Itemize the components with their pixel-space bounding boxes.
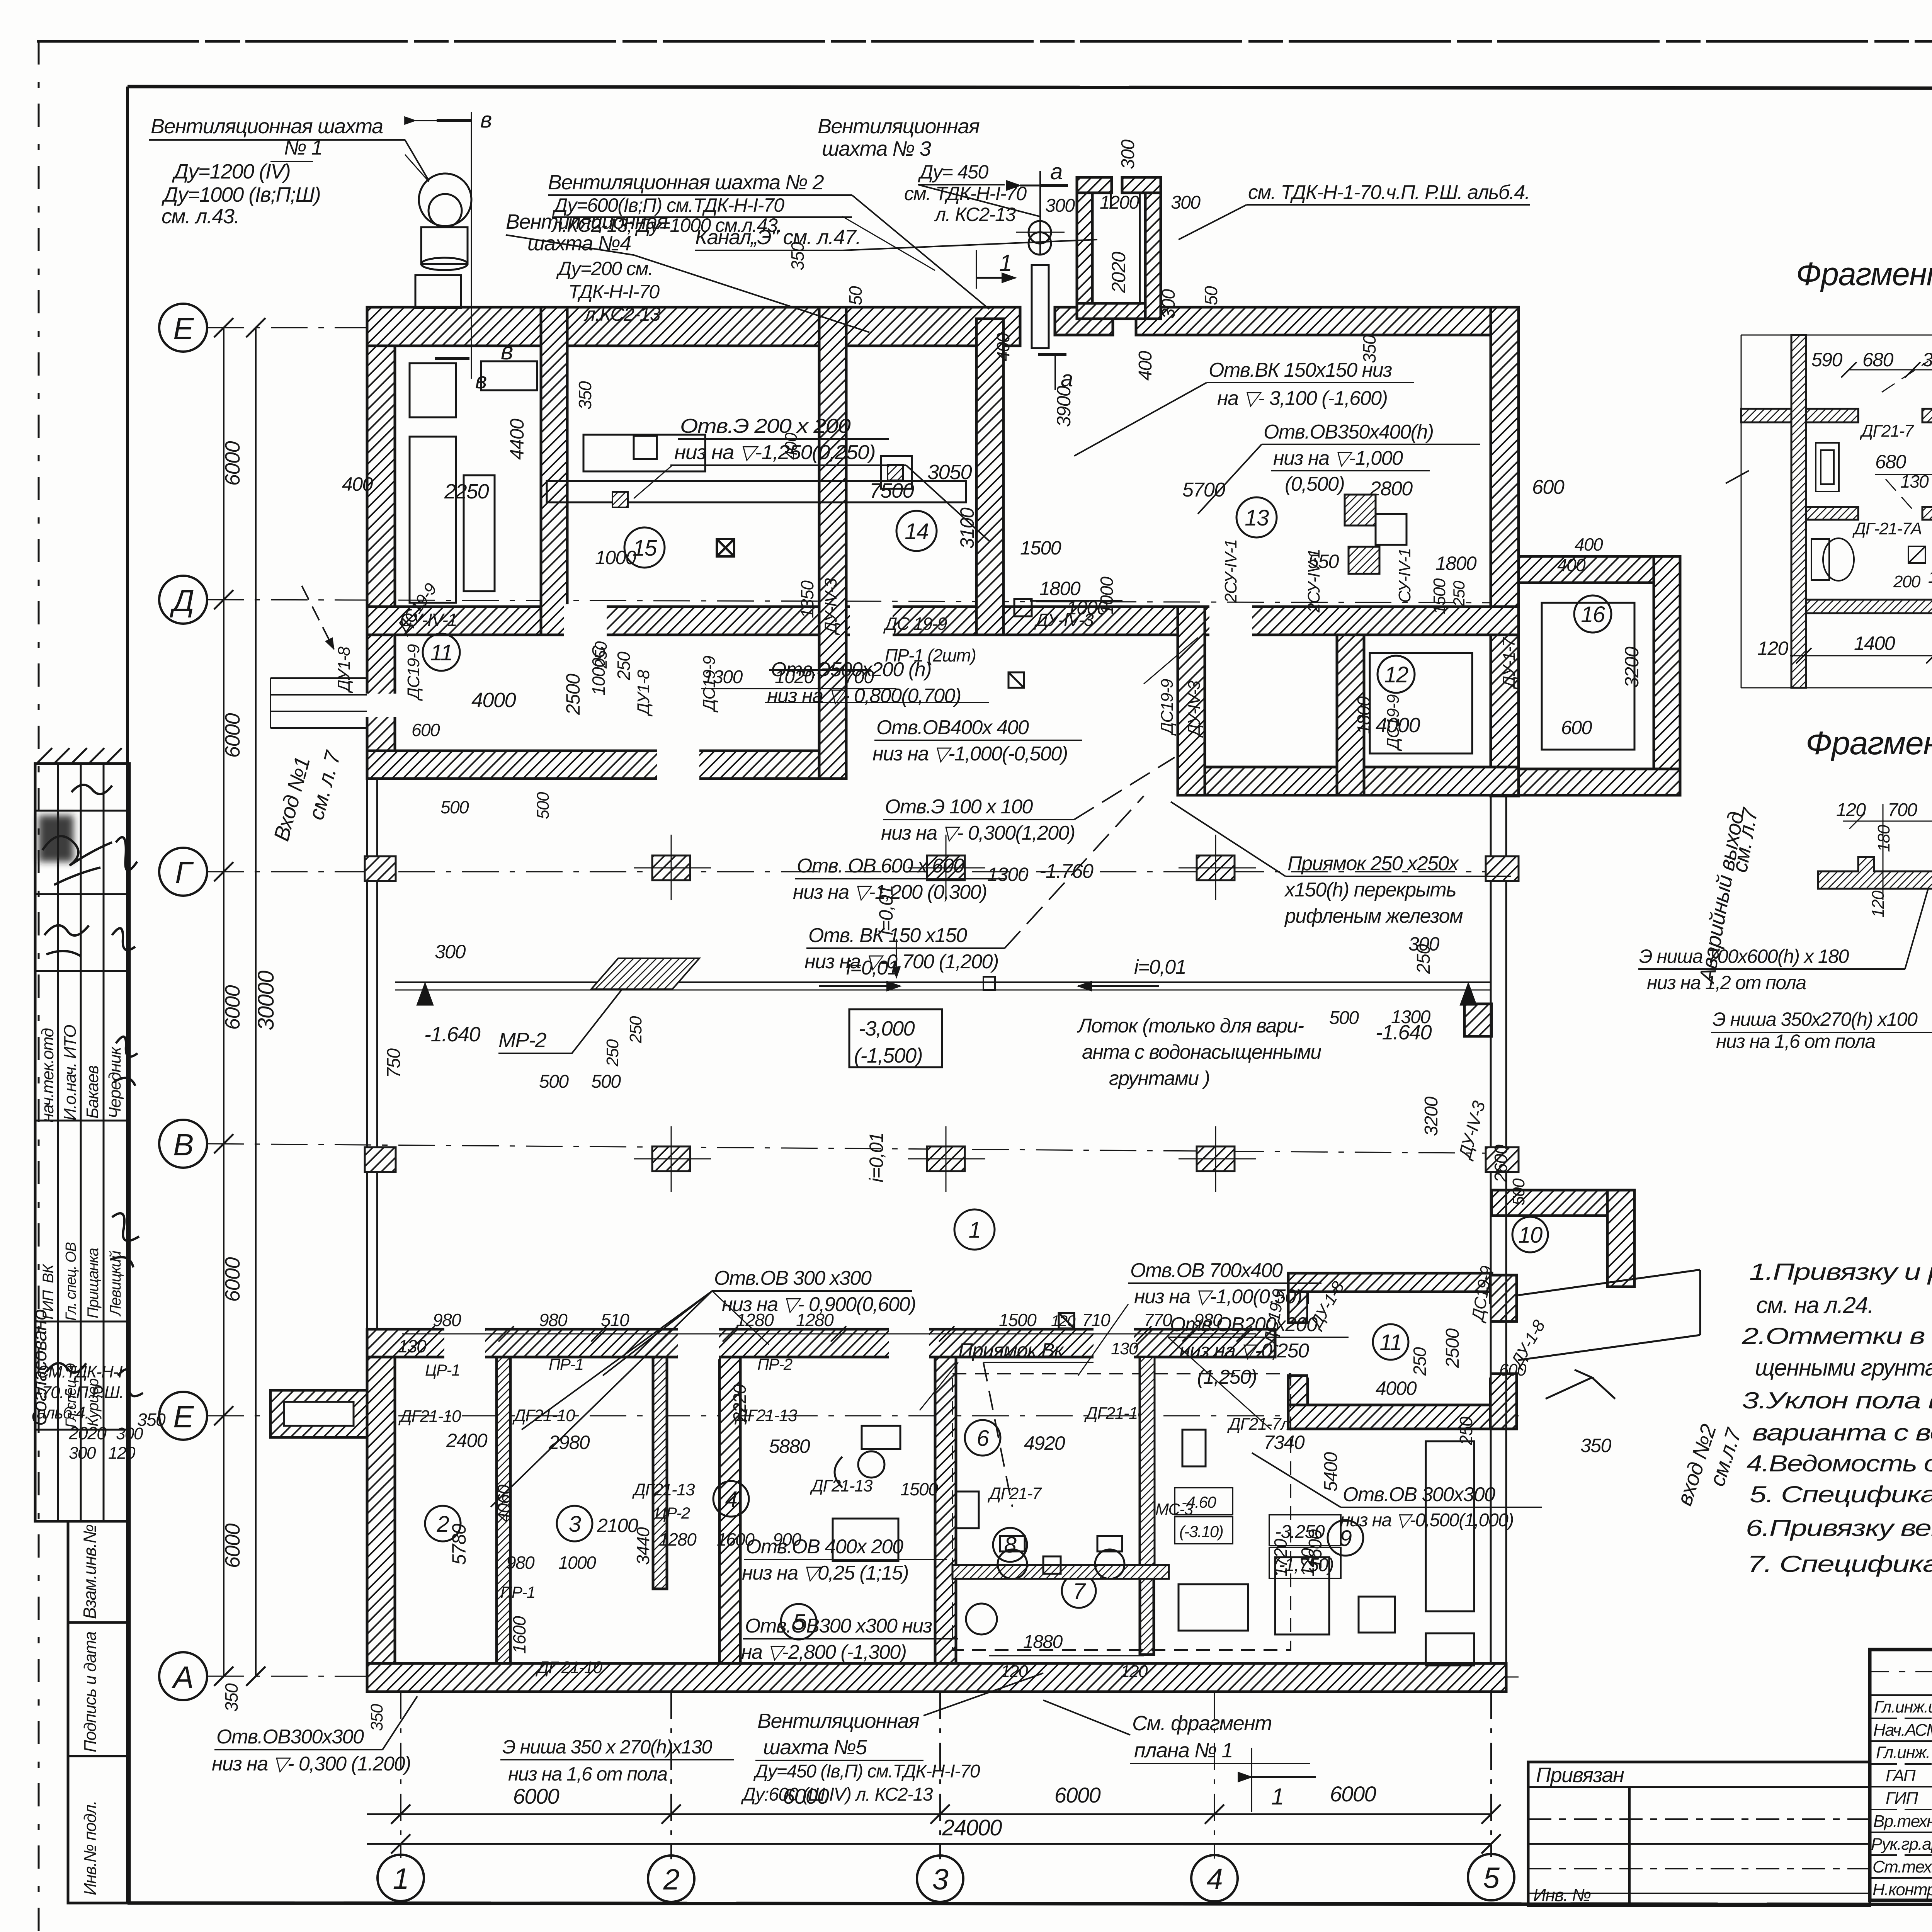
svg-text:3: 3 <box>569 1512 581 1537</box>
svg-text:х150(h) перекрыть: х150(h) перекрыть <box>1284 879 1456 901</box>
svg-text:980: 980 <box>539 1310 568 1330</box>
svg-text:рифленым железом: рифленым железом <box>1284 905 1463 927</box>
svg-text:i=0,01: i=0,01 <box>866 1133 887 1182</box>
svg-text:нач.тек.отд: нач.тек.отд <box>38 1029 57 1122</box>
svg-text:Нач.АСМ: Нач.АСМ <box>1873 1721 1932 1740</box>
svg-text:1: 1 <box>393 1862 409 1895</box>
svg-text:1400: 1400 <box>1854 633 1895 654</box>
svg-text:Отв.ОВ 400х 200: Отв.ОВ 400х 200 <box>746 1536 903 1558</box>
svg-text:ГИП: ГИП <box>1886 1789 1918 1808</box>
svg-text:2500: 2500 <box>562 673 584 715</box>
svg-text:16: 16 <box>1581 602 1605 627</box>
svg-text:ПР-1 (2шт): ПР-1 (2шт) <box>885 645 976 665</box>
svg-text:2220: 2220 <box>730 1384 750 1422</box>
svg-text:120: 120 <box>1757 638 1789 659</box>
svg-text:2600: 2600 <box>1491 1145 1511 1183</box>
svg-text:1280: 1280 <box>796 1310 834 1330</box>
svg-text:4920: 4920 <box>1024 1432 1065 1454</box>
svg-text:Гл. спец. ОВ: Гл. спец. ОВ <box>63 1242 79 1321</box>
svg-text:600: 600 <box>412 720 440 740</box>
svg-text:ДУ-IV-3: ДУ-IV-3 <box>821 578 840 636</box>
svg-text:600: 600 <box>1561 717 1592 738</box>
svg-text:Отв.ОВ 700х400: Отв.ОВ 700х400 <box>1130 1259 1283 1282</box>
svg-text:i=0,01: i=0,01 <box>875 885 897 935</box>
svg-text:300: 300 <box>1045 196 1075 216</box>
svg-text:ЦР-2: ЦР-2 <box>655 1504 690 1522</box>
svg-text:1300: 1300 <box>703 667 743 687</box>
svg-text:см. л.43.: см. л.43. <box>162 205 239 228</box>
svg-text:120: 120 <box>108 1444 136 1463</box>
svg-text:ДУ-1-7: ДУ-1-7 <box>1500 637 1519 690</box>
svg-text:низ на 1,6 от пола: низ на 1,6 от пола <box>1716 1031 1875 1052</box>
svg-text:Ду:600 (Ш,IV) л. КС2-13: Ду:600 (Ш,IV) л. КС2-13 <box>741 1784 933 1805</box>
svg-text:2100: 2100 <box>597 1515 638 1536</box>
svg-text:Инв.№ подл.: Инв.№ подл. <box>81 1801 100 1895</box>
svg-text:4400: 4400 <box>506 418 528 460</box>
svg-text:низ на ▽-1,000(-0,500): низ на ▽-1,000(-0,500) <box>872 743 1068 765</box>
svg-text:350: 350 <box>787 242 808 270</box>
svg-text:Ду=1000 (Iв;П;Ш): Ду=1000 (Iв;П;Ш) <box>162 183 320 206</box>
svg-text:14: 14 <box>905 519 929 544</box>
svg-text:350: 350 <box>137 1410 166 1430</box>
svg-text:ДГ21-13: ДГ21-13 <box>632 1480 695 1499</box>
svg-text:шахта №5: шахта №5 <box>763 1736 867 1759</box>
svg-text:6000: 6000 <box>221 441 244 486</box>
svg-text:4000: 4000 <box>1376 1378 1417 1399</box>
svg-text:Взам.инв.№: Взам.инв.№ <box>80 1524 100 1619</box>
svg-text:300: 300 <box>69 1444 96 1463</box>
svg-text:5400: 5400 <box>1321 1452 1341 1492</box>
svg-text:Лоток (только для вари-: Лоток (только для вари- <box>1077 1015 1304 1037</box>
svg-text:2500: 2500 <box>1442 1328 1463 1368</box>
svg-text:1: 1 <box>969 1218 981 1243</box>
svg-text:2800: 2800 <box>1369 478 1413 500</box>
svg-text:Фрагмент плана №1: Фрагмент плана №1 <box>1796 256 1932 292</box>
svg-text:250: 250 <box>614 651 634 680</box>
svg-text:ГАП: ГАП <box>1886 1766 1916 1785</box>
svg-text:350: 350 <box>367 1704 386 1731</box>
svg-text:4060: 4060 <box>494 1485 514 1522</box>
svg-text:Вентиляционная шахта: Вентиляционная шахта <box>151 115 383 138</box>
svg-text:50: 50 <box>1201 286 1221 305</box>
svg-text:i=0,01: i=0,01 <box>1134 956 1186 978</box>
svg-text:ДГ21-10: ДГ21-10 <box>512 1406 575 1425</box>
svg-text:350: 350 <box>221 1683 241 1712</box>
svg-text:А: А <box>172 1660 193 1694</box>
svg-text:Отв.ОВ300х300: Отв.ОВ300х300 <box>216 1726 364 1748</box>
svg-text:250: 250 <box>626 1016 645 1044</box>
svg-text:Вентиляционная шахта № 2: Вентиляционная шахта № 2 <box>548 171 824 194</box>
svg-text:4: 4 <box>725 1487 737 1512</box>
svg-text:380: 380 <box>1922 349 1932 371</box>
svg-text:1000: 1000 <box>558 1553 596 1573</box>
svg-text:Вход №1: Вход №1 <box>269 755 315 844</box>
svg-text:ДГ21-10: ДГ21-10 <box>1084 1404 1147 1423</box>
svg-text:Отв.ОВ 300х300: Отв.ОВ 300х300 <box>1343 1483 1495 1506</box>
svg-text:Привязан: Привязан <box>1536 1764 1624 1787</box>
svg-text:ДС19-9: ДС19-9 <box>404 644 423 701</box>
svg-text:900: 900 <box>773 1529 801 1549</box>
svg-text:низ на ▽- 0,300(1,200): низ на ▽- 0,300(1,200) <box>881 822 1075 844</box>
svg-text:Отв. ОВ 600 х 600: Отв. ОВ 600 х 600 <box>797 855 964 877</box>
svg-text:Ду=1200 (IV): Ду=1200 (IV) <box>172 160 290 183</box>
svg-text:1350: 1350 <box>797 580 817 618</box>
svg-text:1500: 1500 <box>1020 537 1061 559</box>
svg-text:Отв.ОВ300 х300 низ: Отв.ОВ300 х300 низ <box>745 1615 932 1637</box>
svg-text:Приямок Вк: Приямок Вк <box>958 1339 1065 1362</box>
svg-text:500: 500 <box>591 1071 621 1092</box>
svg-text:300: 300 <box>1158 289 1179 319</box>
svg-text:1600: 1600 <box>717 1529 755 1549</box>
svg-text:500: 500 <box>539 1071 569 1092</box>
svg-text:Вр.техн.: Вр.техн. <box>1873 1812 1932 1831</box>
svg-text:И.о.нач. ИТО: И.о.нач. ИТО <box>61 1025 80 1121</box>
svg-text:50: 50 <box>845 286 866 305</box>
svg-text:Инв. №: Инв. № <box>1533 1885 1591 1905</box>
svg-text:1: 1 <box>999 250 1012 276</box>
svg-text:680: 680 <box>1862 349 1894 371</box>
svg-text:130: 130 <box>1928 568 1932 587</box>
svg-text:120: 120 <box>1051 1313 1075 1330</box>
svg-text:СМ.ТДК-Н-I: СМ.ТДК-Н-I <box>37 1362 123 1381</box>
svg-text:6000: 6000 <box>1330 1782 1376 1806</box>
svg-text:1300: 1300 <box>987 864 1029 885</box>
svg-text:6000: 6000 <box>221 713 244 758</box>
svg-text:6000: 6000 <box>1054 1783 1101 1807</box>
svg-text:(1,250): (1,250) <box>1197 1366 1257 1388</box>
svg-text:Отв.ВК 150х150 низ: Отв.ВК 150х150 низ <box>1209 359 1392 381</box>
svg-text:Е: Е <box>173 311 194 346</box>
svg-text:980: 980 <box>506 1553 535 1573</box>
svg-text:Ст.техн: Ст.техн <box>1872 1857 1932 1876</box>
svg-text:Вентиляционная: Вентиляционная <box>757 1709 919 1733</box>
svg-text:7340: 7340 <box>1264 1432 1305 1453</box>
svg-text:350: 350 <box>575 381 595 410</box>
svg-text:1800: 1800 <box>1435 553 1477 574</box>
svg-text:1200: 1200 <box>1100 192 1139 213</box>
svg-text:низ на ▽0,25 (1;15): низ на ▽0,25 (1;15) <box>742 1562 908 1584</box>
svg-text:1500: 1500 <box>900 1479 938 1499</box>
svg-text:Левицкий: Левицкий <box>107 1251 124 1317</box>
svg-text:Отв.Э 200 х 200: Отв.Э 200 х 200 <box>680 415 851 437</box>
svg-text:ДУ-IV-3: ДУ-IV-3 <box>1454 1099 1489 1162</box>
svg-text:1600: 1600 <box>509 1616 529 1654</box>
svg-text:2020: 2020 <box>68 1423 107 1443</box>
svg-text:см. ТДК-Н-1-70.ч.П. Р.Ш. альб.: см. ТДК-Н-1-70.ч.П. Р.Ш. альб.4. <box>1248 181 1530 204</box>
svg-text:180: 180 <box>1874 825 1893 852</box>
svg-text:низ на ▽-0,700 (1,200): низ на ▽-0,700 (1,200) <box>804 951 998 973</box>
svg-text:5: 5 <box>1483 1862 1500 1895</box>
svg-text:6: 6 <box>977 1426 990 1451</box>
svg-text:Прищанка: Прищанка <box>85 1248 102 1318</box>
svg-text:а: а <box>1050 159 1062 184</box>
svg-text:2: 2 <box>437 1512 449 1537</box>
svg-text:4: 4 <box>1207 1863 1223 1896</box>
svg-text:ДС19-9: ДС19-9 <box>1158 679 1177 736</box>
svg-text:700: 700 <box>1888 800 1917 820</box>
svg-text:7. Спецификацию перемычек с: 7. Спецификацию перемычек см. л. 44. <box>1747 1551 1932 1577</box>
svg-text:анта с водонасыщенными: анта с водонасыщенными <box>1082 1041 1321 1063</box>
svg-text:2СУ-IV-1: 2СУ-IV-1 <box>1221 539 1240 603</box>
svg-text:Э ниша 350 х 270(h)х130: Э ниша 350 х 270(h)х130 <box>502 1736 712 1758</box>
svg-text:В: В <box>173 1128 193 1162</box>
svg-text:-3.250: -3.250 <box>1275 1522 1325 1542</box>
svg-text:500: 500 <box>1509 1178 1528 1206</box>
svg-text:Отв.ОВ400х 400: Отв.ОВ400х 400 <box>876 716 1029 739</box>
svg-text:Отв.ОВ 300 х300: Отв.ОВ 300 х300 <box>714 1267 872 1289</box>
svg-text:710: 710 <box>1082 1310 1111 1330</box>
svg-text:Рук.гр.арх: Рук.гр.арх <box>1871 1835 1932 1854</box>
svg-text:6000: 6000 <box>221 1257 244 1302</box>
svg-text:грунтами ): грунтами ) <box>1109 1067 1209 1090</box>
svg-text:24000: 24000 <box>942 1815 1002 1840</box>
svg-text:3050: 3050 <box>927 461 972 484</box>
svg-text:низ на 1,6 от пола: низ на 1,6 от пола <box>508 1763 667 1785</box>
svg-text:шахта № 3: шахта № 3 <box>822 137 931 160</box>
svg-text:Э ниша 700х600(h) х 180: Э ниша 700х600(h) х 180 <box>1639 946 1849 967</box>
svg-text:1280: 1280 <box>659 1529 697 1549</box>
svg-text:750: 750 <box>384 1048 404 1078</box>
svg-text:Д: Д <box>170 583 194 618</box>
svg-text:120: 120 <box>1001 1662 1028 1681</box>
svg-text:ДУ-IV-3: ДУ-IV-3 <box>1185 680 1204 738</box>
svg-text:ДГ-21-7А: ДГ-21-7А <box>1852 519 1922 538</box>
svg-text:-4.60: -4.60 <box>1182 1493 1216 1511</box>
svg-text:7500: 7500 <box>869 479 914 502</box>
svg-text:350: 350 <box>1580 1435 1612 1456</box>
svg-text:1280: 1280 <box>736 1310 774 1330</box>
svg-text:1800: 1800 <box>1039 578 1081 599</box>
svg-text:2СУ-IV-1: 2СУ-IV-1 <box>1304 549 1323 613</box>
svg-text:3900: 3900 <box>1053 386 1075 427</box>
svg-text:Канал„Э" см. л.47.: Канал„Э" см. л.47. <box>695 226 861 249</box>
svg-text:Гл.инж.ин: Гл.инж.ин <box>1874 1697 1932 1716</box>
svg-text:2.Отметки в скобках приведены: 2.Отметки в скобках приведены для вариан… <box>1742 1323 1932 1349</box>
svg-text:1000: 1000 <box>595 547 636 568</box>
svg-text:Отв.Э 100 х 100: Отв.Э 100 х 100 <box>885 796 1033 818</box>
svg-text:120: 120 <box>1121 1662 1148 1681</box>
svg-text:Ду=450 (Iв,П) см.ТДК-Н-I-70: Ду=450 (Iв,П) см.ТДК-Н-I-70 <box>753 1761 980 1782</box>
svg-text:250: 250 <box>1413 944 1434 974</box>
svg-text:на ▽- 3,100 (-1,600): на ▽- 3,100 (-1,600) <box>1217 387 1387 410</box>
svg-text:ПР-1: ПР-1 <box>549 1355 583 1373</box>
svg-text:ТДК-Н-I-70: ТДК-Н-I-70 <box>568 281 660 303</box>
svg-text:варианта с водонасыщенными гр: варианта с водонасыщенными грунтами. <box>1752 1420 1932 1446</box>
svg-text:Э ниша 350х270(h) х100: Э ниша 350х270(h) х100 <box>1713 1009 1918 1030</box>
svg-text:ДУ1-8: ДУ1-8 <box>634 670 653 717</box>
svg-text:300: 300 <box>435 941 466 963</box>
svg-text:300: 300 <box>1171 192 1201 213</box>
svg-text:СУ-IV-1: СУ-IV-1 <box>1395 548 1414 603</box>
svg-text:11: 11 <box>1379 1330 1401 1355</box>
svg-text:13: 13 <box>1245 505 1269 531</box>
svg-text:Е: Е <box>173 1400 194 1434</box>
svg-text:11: 11 <box>430 640 452 665</box>
svg-text:3: 3 <box>932 1863 949 1896</box>
svg-text:6000: 6000 <box>221 985 244 1030</box>
svg-text:250: 250 <box>1450 580 1468 607</box>
svg-text:3.Уклон пола в помещении для б: 3.Уклон пола в помещении для больных при… <box>1742 1388 1932 1413</box>
svg-text:2250: 2250 <box>444 480 489 503</box>
svg-text:130: 130 <box>1111 1339 1138 1358</box>
svg-text:Подпись и дата: Подпись и дата <box>81 1632 100 1752</box>
svg-text:Бакаев: Бакаев <box>83 1066 102 1119</box>
svg-text:250: 250 <box>1410 1347 1430 1376</box>
svg-text:Н.контр.: Н.контр. <box>1872 1880 1932 1899</box>
svg-text:-1.640: -1.640 <box>424 1023 481 1046</box>
svg-text:Вентиляционная: Вентиляционная <box>506 210 668 233</box>
svg-text:980: 980 <box>1194 1310 1223 1330</box>
svg-text:980: 980 <box>433 1310 461 1330</box>
svg-text:590: 590 <box>1811 349 1843 371</box>
svg-text:-1.760: -1.760 <box>1039 860 1094 883</box>
svg-text:500: 500 <box>534 792 553 819</box>
svg-text:плана № 1: плана № 1 <box>1134 1739 1233 1762</box>
svg-text:5880: 5880 <box>769 1435 810 1457</box>
svg-text:4.Ведомость отделки помещений: 4.Ведомость отделки помещений см. л.4, <box>1747 1451 1932 1476</box>
svg-text:щенными грунтами.: щенными грунтами. <box>1755 1355 1932 1381</box>
svg-text:500: 500 <box>1329 1008 1359 1028</box>
svg-text:400: 400 <box>1575 534 1603 554</box>
svg-text:400: 400 <box>342 473 373 495</box>
svg-text:ДС19-9: ДС19-9 <box>1384 694 1403 752</box>
svg-text:на ▽-2,800 (-1,300): на ▽-2,800 (-1,300) <box>741 1641 906 1663</box>
svg-text:Гл.инж.: Гл.инж. <box>1876 1743 1930 1762</box>
svg-text:(-3.10): (-3.10) <box>1179 1522 1223 1541</box>
svg-text:(0,500): (0,500) <box>1285 473 1344 495</box>
svg-text:1: 1 <box>1271 1784 1284 1810</box>
svg-text:250: 250 <box>592 641 611 669</box>
svg-text:ПР-1: ПР-1 <box>500 1583 535 1601</box>
svg-text:5. Спецификацию дверей см. л: 5. Спецификацию дверей см. л.4. <box>1750 1481 1932 1507</box>
svg-text:Г: Г <box>175 855 194 890</box>
svg-text:ДУ1-8: ДУ1-8 <box>335 646 354 694</box>
svg-text:250: 250 <box>1456 1417 1476 1446</box>
svg-text:3200: 3200 <box>1421 1096 1442 1136</box>
svg-text:400: 400 <box>993 333 1013 361</box>
svg-text:1500: 1500 <box>999 1310 1037 1330</box>
svg-text:600: 600 <box>1499 1361 1527 1379</box>
svg-text:1300: 1300 <box>1391 1007 1431 1027</box>
svg-text:400: 400 <box>1557 555 1586 575</box>
svg-text:6.Привязку вентиляционных ша: 6.Привязку вентиляционных шахт см. л.6.7… <box>1746 1515 1932 1541</box>
svg-text:10: 10 <box>1518 1223 1543 1248</box>
svg-text:6000: 6000 <box>513 1784 560 1808</box>
svg-text:Ду= 450: Ду= 450 <box>918 161 988 183</box>
svg-text:250: 250 <box>603 1039 622 1067</box>
svg-text:низ на ▽-1,000: низ на ▽-1,000 <box>1273 447 1403 469</box>
svg-text:низ на ▽- 0,300 (1.200): низ на ▽- 0,300 (1.200) <box>212 1753 411 1775</box>
svg-text:Приямок 250 х250х: Приямок 250 х250х <box>1287 852 1459 875</box>
svg-text:2980: 2980 <box>548 1432 590 1453</box>
svg-text:(-1,500): (-1,500) <box>854 1044 922 1067</box>
svg-text:4000: 4000 <box>471 689 516 712</box>
svg-text:низ на ▽-1,250(0,250): низ на ▽-1,250(0,250) <box>674 441 875 464</box>
svg-text:120: 120 <box>1869 890 1888 918</box>
svg-text:низ на 1,2 от пола: низ на 1,2 от пола <box>1647 972 1806 993</box>
svg-text:-70.ч.П.Р.Ш.: -70.ч.П.Р.Ш. <box>37 1383 123 1402</box>
svg-text:200: 200 <box>1893 572 1921 591</box>
svg-text:2: 2 <box>663 1863 680 1896</box>
svg-text:12: 12 <box>1384 662 1408 687</box>
svg-text:7: 7 <box>1073 1579 1087 1604</box>
svg-text:1000: 1000 <box>1097 577 1117 614</box>
svg-text:ПР-2: ПР-2 <box>757 1355 793 1373</box>
svg-text:30000: 30000 <box>253 971 279 1031</box>
svg-text:см. на л.24.: см. на л.24. <box>1756 1292 1873 1318</box>
svg-text:400: 400 <box>1135 351 1156 381</box>
svg-text:МР-2: МР-2 <box>498 1029 546 1052</box>
svg-text:в: в <box>501 338 513 365</box>
svg-text:Отв.ОВ350х400(h): Отв.ОВ350х400(h) <box>1264 421 1434 443</box>
svg-text:300: 300 <box>1118 139 1138 169</box>
svg-text:Фрагмент плана №2: Фрагмент плана №2 <box>1806 725 1932 761</box>
svg-text:5780: 5780 <box>448 1524 470 1565</box>
svg-text:1500: 1500 <box>1430 578 1449 614</box>
svg-text:ЦР-1: ЦР-1 <box>425 1361 460 1379</box>
svg-text:i=0,01: i=0,01 <box>846 957 898 979</box>
svg-text:альб.4.: альб.4. <box>37 1403 89 1422</box>
svg-text:л.КС2-13: л.КС2-13 <box>583 303 661 325</box>
svg-text:1.Привязку и размеры проемов в: 1.Привязку и размеры проемов в ж.б монол… <box>1749 1259 1932 1285</box>
svg-text:ДС 19-9: ДС 19-9 <box>883 614 947 634</box>
svg-text:600: 600 <box>1532 476 1565 498</box>
svg-text:770: 770 <box>1144 1310 1172 1330</box>
svg-text:1800: 1800 <box>1354 696 1374 734</box>
svg-text:См. фрагмент: См. фрагмент <box>1132 1712 1272 1735</box>
svg-text:ДГ21-7: ДГ21-7 <box>987 1484 1042 1503</box>
svg-text:Ду=200 см.: Ду=200 см. <box>556 258 653 279</box>
svg-text:см. л. 7: см. л. 7 <box>304 748 345 822</box>
svg-text:ДГ 21-10: ДГ 21-10 <box>535 1658 603 1677</box>
svg-text:в: в <box>480 107 492 133</box>
svg-text:680: 680 <box>1875 451 1906 473</box>
svg-text:ДГ21-10: ДГ21-10 <box>398 1407 461 1426</box>
svg-text:500: 500 <box>440 797 469 817</box>
svg-text:ДГ21-7: ДГ21-7 <box>1859 422 1914 440</box>
svg-text:2400: 2400 <box>446 1430 488 1451</box>
svg-text:6000: 6000 <box>221 1523 244 1568</box>
svg-text:2020: 2020 <box>1108 252 1129 293</box>
svg-text:3200: 3200 <box>1621 646 1643 688</box>
svg-text:15: 15 <box>633 536 657 561</box>
svg-text:низ на ▽-0,250: низ на ▽-0,250 <box>1179 1340 1309 1362</box>
svg-text:Вентиляционная: Вентиляционная <box>818 115 980 138</box>
svg-text:-3,000: -3,000 <box>859 1017 915 1040</box>
